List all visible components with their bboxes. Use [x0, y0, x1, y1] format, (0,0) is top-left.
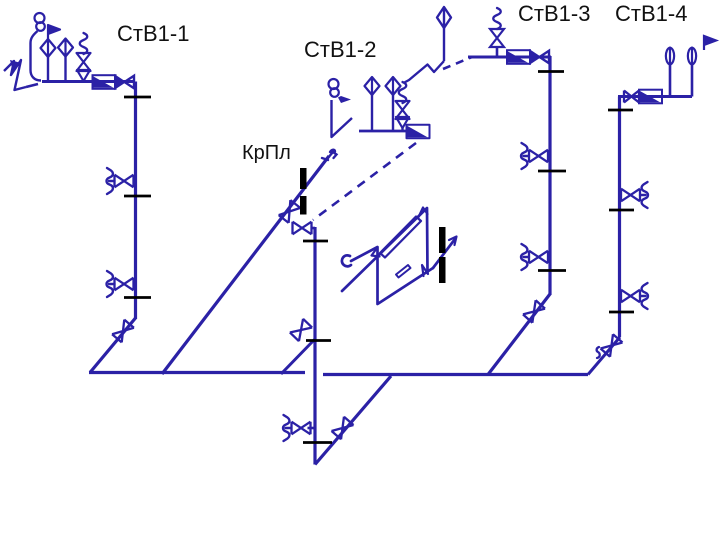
valve at bottom of riser СтВ1-2	[292, 422, 311, 435]
wire: mixer stem СтВ1-2	[332, 100, 353, 137]
hook of sink branch	[342, 255, 351, 266]
flag fixture СтВ1-1	[48, 25, 60, 39]
valve at top of riser СтВ1-2	[293, 222, 312, 235]
tick riser4 floor2	[609, 209, 634, 212]
wire: СтВ1-4 left fixture stem	[669, 63, 672, 97]
wire: riser СтВ1-2 mid link diagonal	[281, 339, 315, 374]
wire: header СтВ1-3	[468, 56, 551, 59]
tick riser2 mid	[306, 339, 331, 342]
riser СтВ1-2	[313, 227, 316, 465]
wire: stem to header	[496, 47, 499, 57]
tap diamond 2	[58, 39, 73, 57]
wire: zigzag link СтВ1-3	[404, 61, 445, 83]
valve on СтВ1-2 mid link diagonal	[290, 319, 312, 341]
tick riser4 floor1	[609, 311, 634, 314]
hook at top of КрПл diagonal	[322, 150, 337, 160]
wire: fixture header СтВ1-1	[42, 80, 135, 83]
hourglass fire stack СтВ1-2	[396, 101, 410, 119]
valve СтВ1-3 inlet	[530, 51, 549, 64]
tick riser4 top	[608, 109, 633, 112]
mixer double circle СтВ1-2	[329, 79, 339, 97]
valve on СтВ1-1 drop diagonal	[112, 320, 134, 343]
tick riser2 bottom	[303, 441, 332, 444]
valve on КрПл diagonal	[279, 200, 301, 223]
tap hook СтВ1-4 floor1	[640, 283, 648, 309]
label СтВ1-4	[615, 1, 687, 26]
arrowhead of bar branch	[449, 237, 457, 246]
loop on lower sink branch	[396, 265, 411, 278]
valve СтВ1-3 floor1	[529, 251, 548, 264]
squiggle of fire stack СтВ1-1	[80, 33, 88, 54]
wire: left distribution main	[89, 371, 305, 374]
tick riser3 floor1	[538, 269, 566, 272]
water meter СтВ1-2	[407, 125, 430, 139]
wire: right distribution main	[323, 373, 588, 376]
label КрПл	[242, 142, 291, 165]
zigzag at top of upper branch	[419, 208, 428, 218]
wire: mixer stem curving into header	[31, 31, 42, 81]
tap diamond on stem СтВ1-3	[437, 7, 451, 28]
tap diamond 1 СтВ1-2	[365, 77, 380, 95]
tap hook floor2	[107, 168, 115, 194]
wire: dashed link to header СтВ1-3	[443, 57, 472, 69]
wire: stem of diamond 1	[47, 57, 49, 82]
wire: riser СтВ1-3 link diagonal	[488, 294, 550, 375]
wire: riser СтВ1-4 link diagonal	[588, 337, 620, 375]
wire: arrow branch through black bar	[433, 239, 455, 268]
riser СтВ1-3	[548, 56, 551, 295]
label СтВ1-2	[304, 37, 376, 62]
valve СтВ1-1 floor2	[115, 175, 134, 188]
wire: small dash under СтВ1-1 fixtures	[26, 84, 38, 87]
fire valve stack on header СтВ1-3: squiggle	[493, 8, 501, 29]
wire: КрПл branch diagonal	[162, 156, 329, 374]
tap hook СтВ1-3 floor2	[521, 143, 529, 169]
wire: stem diamond 1 СтВ1-2	[371, 95, 373, 131]
black bar КрПл lower	[300, 196, 307, 215]
wire: riser СтВ1-2 bottom diagonal	[315, 376, 391, 465]
valve СтВ1-4 inlet	[624, 91, 639, 103]
wire: stub valve to riser СтВ1-2	[311, 227, 315, 230]
wire: СтВ1-4 right fixture stem	[691, 63, 694, 97]
valve on СтВ1-4 link diagonal	[601, 334, 623, 357]
wire: stem diamond 2 СтВ1-2	[392, 95, 394, 131]
label СтВ1-3	[518, 1, 590, 26]
valve СтВ1-3 floor2	[529, 150, 548, 163]
flag on right stem СтВ1-4	[704, 36, 716, 50]
tap hook СтВ1-4 floor2	[640, 182, 648, 208]
wire: riser СтВ1-1 drop diagonal	[90, 318, 136, 373]
water meter СтВ1-4	[639, 90, 662, 104]
wire: header СтВ1-4	[618, 95, 692, 98]
valve on СтВ1-2 bottom diagonal	[332, 417, 354, 440]
valve СтВ1-4 floor2	[621, 189, 640, 202]
valve СтВ1-1 inlet	[115, 76, 134, 89]
riser СтВ1-4	[618, 97, 621, 338]
valve on СтВ1-3 link diagonal	[523, 300, 545, 323]
black bar КрПл upper	[300, 168, 307, 189]
sink tap far left	[4, 60, 26, 90]
tap hook floor1	[107, 271, 115, 297]
riser СтВ1-1	[134, 82, 137, 320]
wire: sink branch upper: long diagonal and drop	[342, 208, 428, 291]
tap diamond 2 СтВ1-2	[386, 77, 401, 95]
triangle of fire stack СтВ1-1	[77, 70, 90, 81]
water meter СтВ1-3	[507, 50, 530, 64]
tap lens right СтВ1-4	[688, 48, 696, 65]
black bar sink lower	[439, 257, 446, 283]
wire: stem СтВ1-3 top	[443, 28, 445, 61]
tap hook bottom СтВ1-2	[283, 415, 291, 441]
wire: dashed link meter СтВ1-2 to riser top	[313, 143, 416, 220]
hourglass of fire stack СтВ1-1	[77, 53, 91, 71]
valve СтВ1-1 floor1	[115, 278, 134, 291]
wire: sink branch lower: diagonal, drop, diagonal	[351, 247, 433, 304]
tap lens left СтВ1-4	[666, 48, 674, 65]
loop lens on upper sink branch	[380, 217, 421, 258]
triangle fire stack СтВ1-2	[396, 117, 409, 128]
wire: stub bottom valve to riser	[308, 427, 316, 430]
arrowhead of far-left tap	[10, 60, 21, 71]
kink at bottom of drop	[422, 265, 428, 276]
tick riser3 floor2	[538, 170, 566, 173]
black bar sink upper	[439, 227, 446, 253]
small kink low on upper branch	[372, 248, 380, 257]
wire: header СтВ1-2	[359, 130, 408, 133]
tick riser3 top	[538, 70, 564, 73]
flag small СтВ1-2	[338, 96, 351, 103]
tap diamond 1	[41, 39, 56, 57]
wire: stem of diamond 2	[64, 57, 66, 82]
mixer stem with double circle	[35, 13, 45, 31]
squiggle on СтВ1-4 link diagonal	[597, 347, 600, 358]
valve СтВ1-4 floor1	[621, 290, 640, 303]
squiggle fire stack СтВ1-2	[399, 82, 407, 103]
tick riser1 floor1	[124, 296, 151, 299]
tap hook СтВ1-3 floor1	[521, 244, 529, 270]
label СтВ1-1	[117, 21, 189, 46]
fire valve hourglass	[490, 29, 504, 47]
tick riser1 top	[124, 96, 151, 99]
tick riser2 top	[303, 240, 328, 243]
tick riser1 floor2	[124, 195, 151, 198]
water meter СтВ1-1	[93, 75, 116, 89]
